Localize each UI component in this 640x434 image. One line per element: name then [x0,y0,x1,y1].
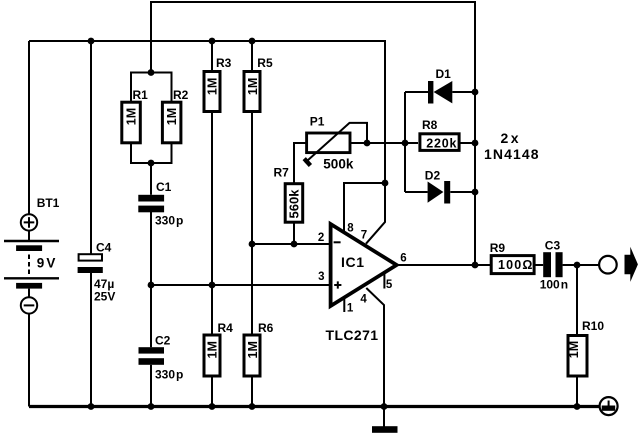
svg-text:D2: D2 [425,169,441,183]
svg-text:R1: R1 [133,88,149,102]
wire: R3 column [211,41,213,334]
ground symbol [372,407,398,433]
svg-text:100n: 100n [540,277,568,291]
wire: C3 to output terminal [563,264,600,266]
wire: R8 right lead [460,142,475,144]
junction dot R4 bottom [209,403,216,410]
wire: R5 column [251,41,253,334]
svg-text:7: 7 [361,229,367,241]
op-amp IC1 [331,224,397,306]
junction dot pin4 ground [381,403,388,410]
junction dot D2 right [472,189,479,196]
svg-text:C4: C4 [96,241,112,255]
junction dot R1R2 bottom [148,160,155,167]
svg-text:D1: D1 [436,67,452,81]
wire: pin2 net [252,243,330,245]
resistor R10 [568,336,587,377]
wire: pin3 net [151,284,330,286]
svg-text:C2: C2 [155,334,171,348]
junction dot R10 bottom [574,403,581,410]
junction dot C4 bottom [88,403,95,410]
svg-text:4: 4 [360,293,367,305]
svg-text:330p: 330p [155,214,183,228]
junction dot R3 top [209,38,216,45]
wire: pin6 output [397,264,490,266]
junction dot P1 wiper [364,140,371,147]
wire: top feedback rail [151,2,475,265]
svg-text:500k: 500k [323,157,354,172]
junction dot output tap [574,262,581,269]
svg-text:TLC271: TLC271 [326,327,379,343]
wire: C1 column [150,163,152,347]
junction dot D1 right [472,89,479,96]
junction dot R1R2 top [148,69,155,76]
svg-text:1M: 1M [246,341,260,358]
svg-text:1M: 1M [246,78,260,95]
svg-text:R9: R9 [490,241,506,255]
svg-text:25V: 25V [94,290,115,304]
resistor R2 [162,102,181,143]
svg-text:330p: 330p [155,368,183,382]
svg-text:2: 2 [318,232,324,244]
resistor R1 [122,102,141,143]
svg-text:P1: P1 [310,114,325,128]
svg-text:1: 1 [347,303,354,315]
resistor R5 [244,72,260,112]
wire: R1R2 bottom join [131,143,172,164]
wire: R10 to ground rail [576,378,578,407]
wire: ground rail [29,405,599,408]
svg-text:C3: C3 [545,238,561,252]
svg-text:1M: 1M [206,78,220,95]
capacitor C2 [139,347,165,365]
battery BT1 [4,214,59,313]
pin 5 stub [383,272,385,289]
output terminal circle [599,256,617,274]
wire: P1 right lead to R8 [350,142,418,144]
svg-text:6: 6 [400,253,406,265]
wire: R6 to ground rail [251,377,253,407]
resistor R9 [491,256,534,274]
wire: C4 column [90,41,92,407]
wire: V+ rail [29,41,385,183]
resistor R7 [285,184,303,223]
potentiometer P1 [304,123,367,166]
diode D1 [405,81,475,104]
svg-text:3: 3 [318,271,324,283]
svg-text:R4: R4 [218,321,234,335]
svg-text:C1: C1 [156,180,172,194]
junction dot output node [472,262,479,269]
resistor R6 [244,335,260,376]
svg-text:R3: R3 [216,56,232,70]
junction dot R7 bottom [291,241,298,248]
wire: pin8 connection [344,183,385,233]
svg-text:560k: 560k [287,189,302,219]
junction dot R5 top [249,38,256,45]
ground terminal [600,397,618,415]
wire: R4 to ground rail [211,377,213,407]
resistor R8 [420,134,459,151]
svg-text:1M: 1M [165,108,179,125]
junction dot C2 bottom [148,403,155,410]
junction dot R8 right [472,140,479,147]
junction dot R3R4 node [209,282,216,289]
junction dot R5R6 node (pin2 net) [249,241,256,248]
wire: C2 to ground rail [150,365,152,407]
capacitor C4 [78,254,103,273]
svg-text:R5: R5 [257,56,273,70]
junction dot diode branch tap [402,140,409,147]
wire: R7 bottom lead [293,223,295,244]
junction dot R6 bottom [249,403,256,410]
wire: R9 to C3 [535,264,543,266]
svg-text:1M: 1M [567,341,581,358]
svg-text:IC1: IC1 [341,254,365,270]
junction dot node A (pin3 wire tap) [148,282,155,289]
svg-text:R8: R8 [422,118,438,132]
junction dot C4 top [88,38,95,45]
wire: battery column bottom [28,314,30,407]
svg-text:R6: R6 [258,321,274,335]
svg-text:BT1: BT1 [37,196,60,210]
wire: diode branch vertical [404,92,406,192]
diode D2 [405,181,475,204]
wire: pin4 to ground [366,288,384,407]
resistor R3 [204,72,220,112]
svg-text:5: 5 [386,279,393,291]
svg-text:R7: R7 [274,166,290,180]
resistor R4 [204,335,220,376]
svg-text:1M: 1M [125,108,139,125]
wire: pin7 connection [366,183,385,244]
svg-text:100Ω: 100Ω [498,258,534,272]
capacitor C3 [543,252,562,277]
wire: R7 top lead to P1 [294,143,307,183]
svg-text:9V: 9V [37,256,56,271]
svg-text:220k: 220k [426,136,457,150]
output arrow [625,247,638,282]
svg-text:1M: 1M [206,341,220,358]
pin 1 stub [343,296,345,312]
svg-text:R10: R10 [582,319,604,333]
svg-text:8: 8 [347,222,354,234]
svg-text:R2: R2 [173,88,189,102]
capacitor C1 [138,195,164,213]
svg-text:1N4148: 1N4148 [484,146,540,162]
wire: R1R2 top join [131,73,172,103]
wire: output node to R10 [576,265,578,334]
wire: battery column top [28,41,30,214]
junction dot pins 7-8 V+ [382,180,389,187]
svg-text:2x: 2x [501,130,522,146]
